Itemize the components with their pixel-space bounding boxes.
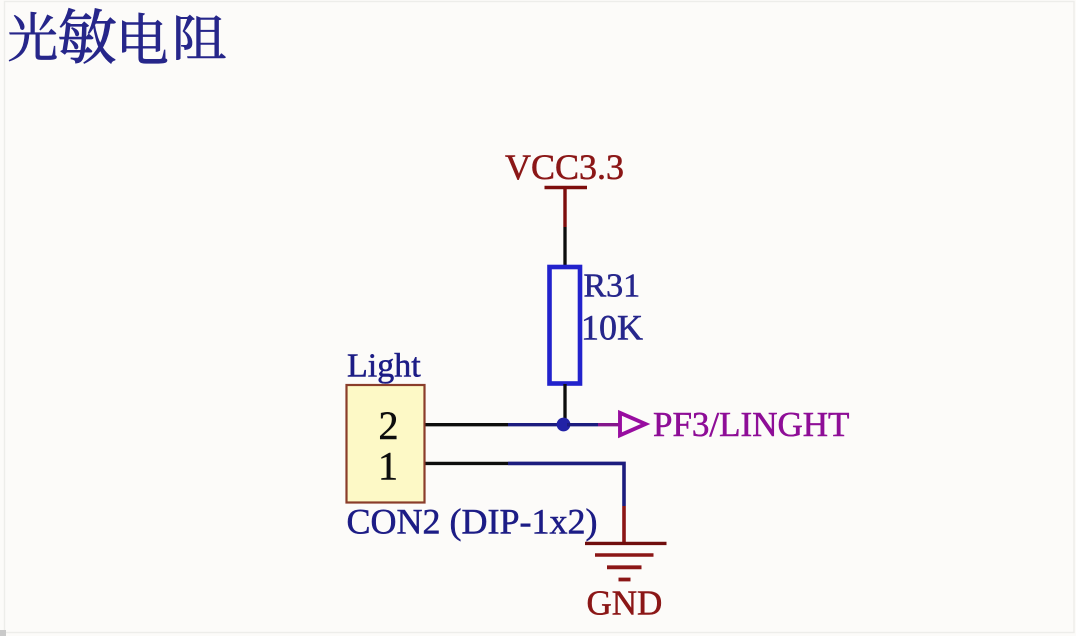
resistor R31 body <box>550 267 581 384</box>
title char 光 <box>9 12 56 61</box>
ground symbol GND bar 3 <box>607 565 642 569</box>
svg-text:R31: R31 <box>584 268 641 305</box>
junction node dot <box>557 418 571 432</box>
title char 电 <box>122 13 167 63</box>
svg-text:2: 2 <box>379 403 399 448</box>
ground symbol GND bar 4 <box>619 578 631 582</box>
wire resistor R31 pin 2 to junction node <box>563 384 566 420</box>
schematic title 光敏电阻 <box>9 8 225 63</box>
wire junction node to port PF3/LINGHT <box>567 423 598 426</box>
wire pin 1 lead to corner <box>508 463 624 506</box>
connector CON2 pin 1 lead <box>426 462 509 465</box>
wire pin 2 lead to junction node <box>508 423 560 426</box>
svg-text:10K: 10K <box>581 308 643 348</box>
power symbol VCC3.3 pin <box>563 188 566 228</box>
wire corner down to ground (red segment) <box>622 506 626 543</box>
svg-text:Light: Light <box>347 348 421 385</box>
port PF3/LINGHT triangle <box>620 413 646 436</box>
wire segment entering port (magenta) <box>598 423 620 426</box>
svg-text:1: 1 <box>378 444 398 489</box>
svg-text:CON2 (DIP-1x2): CON2 (DIP-1x2) <box>347 502 598 542</box>
wire VCC3.3 to resistor R31 pin 1 <box>563 227 566 266</box>
ground symbol GND bar 1 <box>585 542 667 545</box>
connector CON2 body <box>347 385 425 503</box>
connector CON2 pin 2 lead <box>426 423 509 426</box>
svg-text:GND: GND <box>587 584 663 623</box>
title char 敏 <box>59 8 115 63</box>
svg-text:VCC3.3: VCC3.3 <box>505 147 624 187</box>
title char 阻 <box>176 15 225 60</box>
ground symbol GND bar 2 <box>595 553 654 557</box>
power symbol VCC3.3 bar <box>545 186 588 189</box>
svg-text:PF3/LINGHT: PF3/LINGHT <box>653 405 849 444</box>
